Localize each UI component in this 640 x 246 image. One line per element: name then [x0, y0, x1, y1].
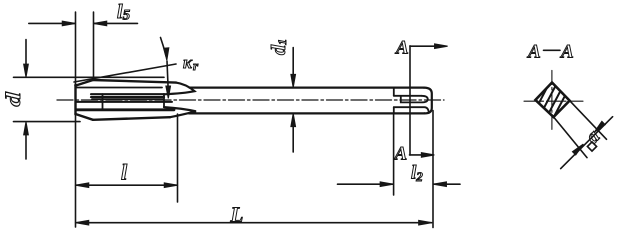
- centerline of reamer: [57, 99, 444, 101]
- dimension L line: [76, 220, 432, 225]
- svg-text:A: A: [527, 42, 541, 63]
- dimension l2 left shaft: [338, 182, 394, 187]
- tang top flat line: [394, 95, 422, 97]
- section arrow A bottom: [410, 153, 435, 158]
- bottom chamfer edge: [76, 114, 94, 120]
- flute line f3: [91, 96, 164, 98]
- label l2: [411, 163, 423, 185]
- label kappa_r: [183, 53, 199, 73]
- label d1: [268, 39, 290, 55]
- section view horizontal centerline: [524, 100, 583, 102]
- tang top flat rounded end: [401, 96, 428, 103]
- svg-text:A: A: [560, 42, 574, 63]
- tang bottom flat line: [394, 107, 429, 113]
- kappa_r leader arc: [161, 38, 169, 61]
- extension line l right: [177, 114, 179, 202]
- label A-A section title: [527, 42, 574, 63]
- extension line l5 right: [93, 12, 95, 79]
- dimension l5 right shaft: [94, 21, 138, 26]
- extension line a upper (from right corner): [570, 101, 607, 140]
- label A top: [395, 38, 409, 59]
- square symbol of dimension a: [587, 142, 596, 151]
- cutting part bottom edge: [93, 117, 170, 120]
- tang bottom flat step: [393, 107, 395, 113]
- dimension d1 line bottom arrow: [291, 114, 296, 152]
- label a: [581, 125, 604, 148]
- flute line f6: [77, 108, 175, 111]
- cutting part top edge: [93, 80, 176, 83]
- dimension d line bottom arrow: [24, 122, 29, 159]
- section arrow A top: [410, 44, 448, 49]
- shank bottom edge: [189, 112, 425, 114]
- section square hatching: [530, 82, 574, 130]
- extension line a lower (from bottom corner): [554, 117, 587, 157]
- kappa_r leader lower segment with arrow: [166, 61, 171, 98]
- flute line f2: [91, 93, 164, 95]
- dimension l line: [76, 183, 178, 188]
- label l: [121, 160, 128, 185]
- dimension a line with outside arrows: [561, 117, 613, 169]
- bottom flute runout tooth: [164, 107, 196, 117]
- svg-text:L: L: [230, 203, 244, 227]
- flute line f1: [77, 87, 163, 89]
- svg-text:A: A: [394, 144, 408, 165]
- flute end tick left: [102, 94, 104, 109]
- svg-text:d: d: [2, 92, 25, 107]
- kappa_r sloped lead-angle line: [74, 64, 176, 82]
- shank top edge: [190, 86, 425, 88]
- flute line f4: [92, 98, 163, 100]
- section square (rotated tang cross-section): [535, 83, 569, 118]
- flute end tick right: [163, 94, 165, 107]
- tang top flat step: [393, 88, 395, 96]
- dimension l2 right shaft: [433, 182, 460, 187]
- section line A-A vertical: [409, 46, 411, 155]
- svg-text:l: l: [121, 160, 128, 185]
- label A bottom: [394, 144, 408, 165]
- flute line f5: [77, 101, 173, 103]
- dimension d extension bottom: [14, 121, 81, 123]
- top chamfer (lead) edge: [76, 80, 94, 86]
- dimension d line top arrow: [24, 40, 29, 78]
- section view vertical centerline: [551, 70, 553, 132]
- shank rounded right end: [424, 88, 432, 114]
- svg-text:A: A: [395, 38, 409, 59]
- extension line l2 left: [393, 115, 395, 196]
- dimension d1 line top arrow: [291, 48, 296, 88]
- dimension l5 left shaft: [29, 21, 76, 26]
- top flute runout tooth: [164, 83, 195, 95]
- label d: [2, 92, 25, 107]
- extension line right (reamer end, l2 L): [432, 111, 434, 228]
- reamer left end face: [74, 85, 76, 115]
- dimension d extension top / angle reference line: [14, 76, 165, 78]
- label L: [230, 203, 244, 227]
- label l5: [117, 1, 131, 24]
- extension line left (body face, l5 l L): [75, 12, 77, 227]
